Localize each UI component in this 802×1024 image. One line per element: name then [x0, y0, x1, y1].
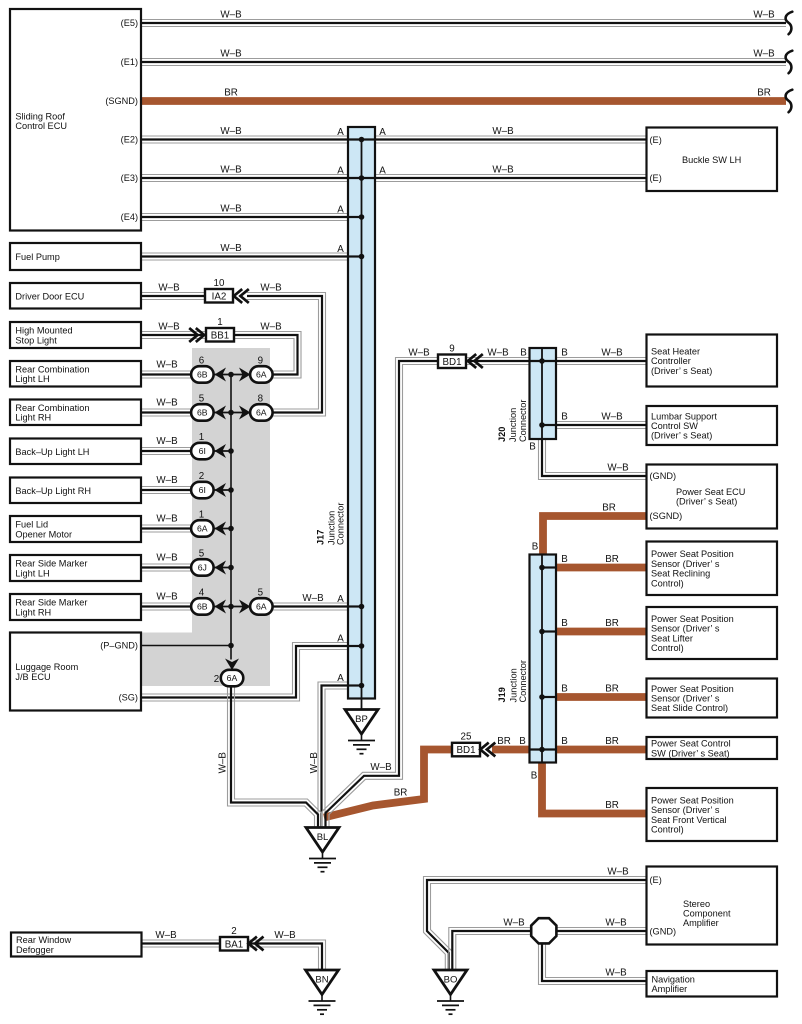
svg-text:BP: BP — [355, 714, 368, 725]
connector 6A pin5 — [250, 598, 273, 615]
svg-text:2: 2 — [214, 674, 219, 685]
svg-text:Control ECU: Control ECU — [15, 121, 67, 131]
svg-text:W–B: W–B — [302, 593, 324, 604]
svg-text:Rear Window: Rear Window — [16, 935, 72, 945]
block High Mounted Stop Light — [10, 322, 141, 348]
svg-text:W–B: W–B — [220, 49, 242, 60]
svg-text:B: B — [561, 618, 568, 629]
svg-text:Amplifier: Amplifier — [652, 984, 688, 994]
connector BD1 pin25 — [452, 732, 480, 757]
block Power Seat Control SW — [647, 737, 778, 759]
wire BR (SGND) to right break — [141, 97, 786, 105]
svg-text:A: A — [337, 204, 344, 215]
connector 6B pin5 — [191, 404, 214, 421]
wire W-B J20 to Lumbar Support Control SW — [556, 422, 646, 429]
chevron at BA1 — [249, 937, 264, 951]
wire W-B High Mounted Stop Light to BB1 — [141, 332, 206, 339]
junction dot J17 y=646 — [359, 643, 365, 649]
ground BL — [306, 828, 339, 872]
junction dot shade bus y=412.5 — [228, 410, 234, 416]
svg-text:6B: 6B — [197, 408, 208, 418]
wire W-B Rear Combination Light RH to 6B — [141, 409, 193, 416]
svg-text:W–B: W–B — [155, 930, 177, 941]
svg-text:BR: BR — [605, 618, 619, 629]
svg-text:W–B: W–B — [492, 126, 514, 137]
svg-text:J17: J17 — [316, 530, 326, 545]
wire W-B BA1 to ground BN — [247, 940, 326, 971]
ground BP — [345, 710, 378, 754]
block Stereo Component Amplifier — [647, 867, 778, 945]
svg-text:W–B: W–B — [260, 283, 282, 294]
connector 6I pin1 — [191, 443, 214, 460]
svg-text:6J: 6J — [198, 563, 207, 573]
wire W-B Back-Up Light RH to 6I — [141, 487, 193, 494]
svg-text:Rear Side Marker: Rear Side Marker — [15, 598, 87, 608]
block Fuel Pump — [10, 243, 141, 270]
connector 6A pin8 — [250, 404, 273, 421]
svg-text:W–B: W–B — [158, 283, 180, 294]
svg-text:Connector: Connector — [335, 503, 345, 545]
junction dot J17 y=178 — [359, 175, 365, 181]
wire BR J19 to Seat Reclining sensor — [555, 564, 647, 572]
svg-text:W–B: W–B — [158, 322, 180, 333]
svg-text:W–B: W–B — [220, 165, 242, 176]
svg-text:A: A — [337, 127, 344, 138]
svg-text:6A: 6A — [256, 602, 267, 612]
svg-text:W–B: W–B — [605, 968, 627, 979]
svg-text:6I: 6I — [199, 446, 206, 456]
chevron at BD1 pin25 — [480, 743, 495, 757]
block Power Seat Position Sensor Reclining — [647, 542, 778, 596]
wire W-B Rear Combination Light LH to 6B — [141, 371, 193, 378]
svg-text:Light LH: Light LH — [15, 374, 49, 384]
svg-text:(E3): (E3) — [121, 173, 138, 183]
block Rear Side Marker Light RH — [10, 594, 141, 620]
svg-text:Sensor (Driver’ s: Sensor (Driver’ s — [651, 624, 720, 634]
svg-text:W–B: W–B — [220, 126, 242, 137]
svg-text:6A: 6A — [227, 673, 238, 683]
wire W-B J17 down to ground BL — [318, 682, 362, 828]
svg-text:B: B — [561, 412, 568, 423]
svg-text:High Mounted: High Mounted — [15, 326, 72, 336]
svg-text:Rear Combination: Rear Combination — [15, 403, 89, 413]
svg-text:W–B: W–B — [607, 867, 629, 878]
svg-text:(E): (E) — [650, 135, 662, 145]
block Power Seat ECU — [647, 465, 778, 529]
svg-text:1: 1 — [199, 510, 204, 521]
svg-text:5: 5 — [199, 549, 205, 560]
wire BR J19 to Power Seat Control SW — [556, 746, 647, 754]
svg-text:Back–Up Light RH: Back–Up Light RH — [15, 486, 91, 496]
svg-text:Power Seat Control: Power Seat Control — [651, 739, 731, 749]
wire W-B noise filter to Navigation Amplifier — [539, 944, 647, 985]
connector 6I pin2 — [191, 482, 214, 499]
J17 internal bus and taps — [347, 140, 376, 699]
wire J17 bus vertical — [361, 140, 363, 710]
svg-text:2: 2 — [231, 926, 236, 937]
wire W-B from IA2 down to 6A pin8 — [247, 293, 326, 417]
svg-text:W–B: W–B — [370, 762, 392, 773]
svg-text:Seat Slide Control): Seat Slide Control) — [651, 703, 728, 713]
svg-text:Controller: Controller — [651, 356, 691, 366]
svg-text:Control): Control) — [651, 578, 684, 588]
connector BA1 pin2 — [220, 926, 248, 951]
wire W-B (E1) to right break — [141, 59, 786, 66]
svg-text:6: 6 — [199, 356, 205, 367]
wire W-B 6A pin5 to J17 — [271, 603, 362, 610]
svg-text:Sensor (Driver’ s: Sensor (Driver’ s — [651, 805, 720, 815]
wire BR Power Seat ECU (SGND) to J19 — [543, 516, 647, 555]
junction dot shade bus y=645.5 — [228, 643, 234, 649]
svg-text:Navigation: Navigation — [652, 975, 695, 985]
connector arrow at 6A pin2 — [225, 659, 239, 671]
block Sliding Roof Control ECU — [10, 9, 141, 231]
svg-text:B: B — [519, 736, 526, 747]
wire shade bus vertical — [230, 375, 232, 660]
svg-text:Power Seat Position: Power Seat Position — [651, 549, 734, 559]
svg-text:B: B — [520, 348, 527, 359]
svg-text:Sensor (Driver’ s: Sensor (Driver’ s — [651, 694, 720, 704]
svg-text:W–B: W–B — [156, 360, 178, 371]
chevron at BD1 pin9 — [468, 354, 483, 368]
svg-text:(E): (E) — [650, 173, 662, 183]
junction dot shade bus y=451 — [228, 448, 234, 454]
svg-text:Defogger: Defogger — [16, 945, 54, 955]
svg-text:BN: BN — [315, 975, 328, 986]
block Fuel Lid Opener Motor — [10, 516, 141, 542]
svg-text:BR: BR — [605, 684, 619, 695]
junction dot J17 y=256.5 — [359, 254, 365, 260]
connector 6J pin5 — [191, 559, 214, 576]
svg-text:B: B — [561, 348, 568, 359]
block Rear Combination Light LH — [10, 361, 141, 387]
svg-text:A: A — [337, 673, 344, 684]
svg-text:(GND): (GND) — [650, 927, 677, 937]
svg-text:Lumbar Support: Lumbar Support — [651, 411, 717, 421]
svg-text:BB1: BB1 — [211, 330, 230, 341]
svg-text:(SGND): (SGND) — [105, 96, 138, 106]
connector arrow at 6A — [239, 406, 251, 420]
svg-text:Sliding Roof: Sliding Roof — [15, 112, 65, 122]
connector arrow at 6B — [215, 368, 227, 382]
junction dot J17 y=685.5 — [359, 683, 365, 689]
svg-text:B: B — [561, 684, 568, 695]
block Rear Side Marker Light LH — [10, 555, 141, 581]
svg-text:BR: BR — [602, 503, 616, 514]
svg-text:BR: BR — [394, 788, 408, 799]
svg-text:Connector: Connector — [518, 660, 528, 702]
svg-text:Junction: Junction — [508, 408, 518, 442]
svg-text:W–B: W–B — [605, 918, 627, 929]
svg-text:Seat Lifter: Seat Lifter — [651, 633, 693, 643]
connector arrow at 6A — [239, 600, 251, 614]
wire W-B noise filter to ground BO — [449, 928, 531, 972]
svg-text:2: 2 — [199, 471, 204, 482]
svg-text:Driver Door ECU: Driver Door ECU — [15, 291, 84, 301]
svg-text:Buckle SW LH: Buckle SW LH — [682, 155, 741, 165]
wire W-B Fuel Pump to J17 — [141, 253, 362, 260]
wire W-B (E5) to right break — [141, 20, 786, 27]
svg-text:Control): Control) — [651, 825, 684, 835]
svg-text:6B: 6B — [197, 370, 208, 380]
svg-text:SW (Driver’ s Seat): SW (Driver’ s Seat) — [651, 748, 730, 758]
junction dot shade bus y=528.5 — [228, 526, 234, 532]
svg-text:W–B: W–B — [156, 436, 178, 447]
svg-text:BR: BR — [605, 736, 619, 747]
junction dot J19 y=749.5 — [539, 747, 545, 753]
block Lumbar Support Control SW — [647, 406, 778, 445]
svg-text:Amplifier: Amplifier — [683, 918, 719, 928]
svg-text:Back–Up Light LH: Back–Up Light LH — [15, 447, 89, 457]
svg-text:Control SW: Control SW — [651, 421, 698, 431]
svg-text:W–B: W–B — [220, 10, 242, 21]
wire W-B (E4) to J17 — [141, 214, 362, 221]
svg-text:BO: BO — [444, 975, 458, 986]
wire (P-GND) to shade bus — [142, 645, 232, 647]
connector 6A pin1 — [191, 520, 214, 537]
block Luggage Room J/B ECU — [10, 633, 141, 711]
wire W-B Rear Side Marker Light RH to 6B — [141, 603, 193, 610]
connector IA2 pin10 — [205, 278, 233, 303]
svg-text:W–B: W–B — [156, 398, 178, 409]
junction dot shade bus y=374.5 — [228, 372, 234, 378]
svg-text:1: 1 — [217, 317, 222, 328]
svg-text:1: 1 — [199, 432, 204, 443]
connector 6A pin2 — [221, 670, 244, 687]
svg-text:B: B — [532, 542, 539, 553]
svg-text:Light RH: Light RH — [15, 607, 51, 617]
svg-text:(SG): (SG) — [119, 693, 138, 703]
svg-text:6B: 6B — [197, 602, 208, 612]
junction dot shade bus y=606.5 — [228, 604, 234, 610]
junction dot J20 y=361 — [539, 358, 545, 364]
svg-text:B: B — [529, 442, 536, 453]
svg-text:BR: BR — [497, 736, 511, 747]
junction connector J17 bar — [348, 127, 375, 699]
svg-text:(Driver’ s Seat): (Driver’ s Seat) — [651, 366, 712, 376]
svg-text:(SGND): (SGND) — [650, 511, 683, 521]
junction dot J17 y=217 — [359, 214, 365, 220]
wire BR J19 to Seat Front Vertical sensor — [542, 762, 647, 814]
svg-text:Rear Side Marker: Rear Side Marker — [15, 559, 87, 569]
svg-text:5: 5 — [199, 394, 205, 405]
svg-text:W–B: W–B — [487, 348, 509, 359]
connector arrow at 6I — [215, 444, 227, 458]
wire W-B Rear Window Defogger to BA1 — [142, 940, 221, 947]
svg-text:8: 8 — [258, 394, 264, 405]
wire W-B J20 to Power Seat ECU (GND) — [539, 439, 647, 480]
svg-text:W–B: W–B — [309, 752, 320, 774]
svg-text:W–B: W–B — [260, 322, 282, 333]
svg-text:A: A — [379, 165, 386, 176]
wire W-B J20 to Seat Heater Controller — [556, 358, 646, 365]
wire W-B Rear Side Marker Light LH to 6J — [141, 564, 193, 571]
svg-text:(Driver’ s Seat): (Driver’ s Seat) — [676, 497, 737, 507]
wire W-B (E2) to Buckle SW LH via J17 — [141, 136, 646, 143]
shade bus taps — [213, 375, 250, 607]
svg-text:Seat Reclining: Seat Reclining — [651, 569, 710, 579]
svg-text:(E5): (E5) — [121, 18, 138, 28]
svg-text:IA2: IA2 — [212, 291, 227, 302]
svg-text:W–B: W–B — [408, 348, 430, 359]
svg-text:Sensor (Driver’ s: Sensor (Driver’ s — [651, 559, 720, 569]
svg-text:BL: BL — [317, 832, 329, 843]
wire W-B Stereo Component Amplifier (E) to ground BO — [424, 877, 647, 972]
connector arrow at 6B — [215, 406, 227, 420]
svg-text:W–B: W–B — [607, 463, 629, 474]
svg-text:(E): (E) — [650, 875, 662, 885]
junction dot J20 y=425 — [539, 422, 545, 428]
svg-text:A: A — [337, 633, 344, 644]
J19 internal bus and taps — [529, 555, 557, 762]
connector arrow at 6I — [215, 483, 227, 497]
junction dot J19 y=567.5 — [539, 565, 545, 571]
svg-text:Fuel Lid: Fuel Lid — [15, 520, 48, 530]
svg-text:Power Seat Position: Power Seat Position — [651, 614, 734, 624]
svg-text:W–B: W–B — [156, 475, 178, 486]
svg-text:W–B: W–B — [218, 752, 229, 774]
svg-text:W–B: W–B — [601, 412, 623, 423]
wire W-B Back-Up Light LH to 6I — [141, 448, 193, 455]
block Back-Up Light LH — [10, 439, 141, 465]
svg-text:W–B: W–B — [156, 553, 178, 564]
junction dot J19 y=631.5 — [539, 629, 545, 635]
svg-text:Control): Control) — [651, 643, 684, 653]
wire BR BD1 pin25 down to ground BL — [324, 750, 452, 818]
junction dot J17 y=606.5 — [359, 604, 365, 610]
svg-text:4: 4 — [199, 588, 205, 599]
svg-text:6A: 6A — [197, 524, 208, 534]
wire BR J19 to Seat Lifter sensor — [555, 628, 647, 636]
svg-text:(P–GND): (P–GND) — [100, 641, 138, 651]
svg-text:Connector: Connector — [518, 400, 528, 442]
svg-text:BR: BR — [605, 800, 619, 811]
svg-text:10: 10 — [214, 278, 225, 289]
wire W-B (E3) to Buckle SW LH via J17 — [141, 175, 646, 182]
break symbol E1 — [786, 51, 793, 73]
svg-text:(E1): (E1) — [121, 57, 138, 67]
svg-text:BD1: BD1 — [442, 357, 461, 368]
connector BD1 pin9 — [438, 343, 466, 368]
svg-text:B: B — [561, 736, 568, 747]
svg-text:J/B ECU: J/B ECU — [15, 672, 50, 682]
ground BO — [434, 970, 467, 1014]
svg-text:(Driver’ s Seat): (Driver’ s Seat) — [651, 431, 712, 441]
svg-text:Light RH: Light RH — [15, 413, 51, 423]
svg-text:Luggage Room: Luggage Room — [15, 662, 78, 672]
wire W-B Fuel Lid Opener Motor to 6A — [141, 525, 193, 532]
break symbol E5 — [786, 12, 793, 35]
svg-text:6I: 6I — [199, 485, 206, 495]
connector arrow at 6A — [215, 522, 227, 536]
svg-text:Stop Light: Stop Light — [15, 335, 57, 345]
wire W-B BD1 pin9 down to ground BL — [322, 358, 438, 829]
svg-text:B: B — [561, 554, 568, 565]
J20 internal bus and taps — [529, 349, 557, 438]
shaded harness region — [142, 348, 271, 686]
svg-text:A: A — [337, 594, 344, 605]
junction dot shade bus y=567.5 — [228, 565, 234, 571]
svg-text:Power Seat Position: Power Seat Position — [651, 796, 734, 806]
block Power Seat Position Sensor Lifter — [647, 607, 778, 659]
svg-text:BA1: BA1 — [225, 939, 244, 950]
connector 6B pin4 — [191, 598, 214, 615]
svg-text:5: 5 — [258, 588, 264, 599]
svg-text:25: 25 — [461, 732, 472, 743]
svg-text:J19: J19 — [497, 687, 507, 702]
svg-text:9: 9 — [258, 356, 263, 367]
svg-text:W–B: W–B — [220, 243, 242, 254]
block Power Seat Position Sensor Front Vertical — [647, 788, 778, 841]
svg-text:9: 9 — [449, 343, 454, 354]
svg-text:W–B: W–B — [156, 514, 178, 525]
wire W-B from 6A pin2 to ground BL — [228, 686, 322, 828]
svg-text:W–B: W–B — [220, 204, 242, 215]
svg-text:Light LH: Light LH — [15, 568, 49, 578]
junction connector J19 bar — [530, 555, 557, 763]
connector arrow at 6J — [215, 561, 227, 575]
svg-text:A: A — [337, 244, 344, 255]
block Power Seat Position Sensor Slide — [647, 679, 778, 718]
connector arrow at 6B — [215, 600, 227, 614]
svg-text:J20: J20 — [497, 427, 507, 442]
block Rear Combination Light RH — [10, 400, 141, 426]
svg-text:BD1: BD1 — [456, 745, 475, 756]
ground BN — [306, 970, 339, 1014]
noise filter octagon — [531, 918, 556, 943]
wire BR J19 to BD1 pin25 — [492, 746, 530, 754]
chevron at BB1 — [189, 328, 204, 342]
svg-text:W–B: W–B — [492, 165, 514, 176]
wire W-B noise filter to Stereo Component Amplifier (GND) — [556, 928, 646, 935]
svg-text:A: A — [379, 127, 386, 138]
junction connector J20 bar — [530, 348, 557, 439]
break symbol SGND — [786, 90, 793, 113]
svg-text:Seat Heater: Seat Heater — [651, 346, 700, 356]
svg-text:Power Seat ECU: Power Seat ECU — [676, 487, 745, 497]
svg-text:Seat Front Vertical: Seat Front Vertical — [651, 815, 727, 825]
svg-text:W–B: W–B — [601, 348, 623, 359]
connector 6A pin9 — [250, 366, 273, 383]
block Seat Heater Controller — [647, 335, 778, 387]
connector 6B pin6 — [191, 366, 214, 383]
connector BB1 pin1 — [206, 317, 234, 342]
svg-text:(E2): (E2) — [121, 135, 138, 145]
wire W-B BD1 pin9 to J20 — [466, 358, 530, 365]
block Buckle SW LH — [647, 128, 778, 192]
block Driver Door ECU — [10, 283, 141, 309]
wire BR J19 to Seat Slide sensor — [555, 693, 647, 701]
svg-text:BR: BR — [224, 88, 238, 99]
svg-text:W–B: W–B — [274, 930, 296, 941]
wire W-B from BB1 down to 6A pin9 — [233, 332, 301, 379]
svg-text:Junction: Junction — [509, 668, 519, 702]
svg-text:Opener Motor: Opener Motor — [15, 529, 72, 539]
svg-text:W–B: W–B — [753, 49, 775, 60]
svg-text:A: A — [337, 165, 344, 176]
svg-text:Component: Component — [683, 909, 731, 919]
svg-text:Rear Combination: Rear Combination — [15, 364, 89, 374]
svg-text:B: B — [531, 771, 538, 782]
junction dot shade bus y=490 — [228, 487, 234, 493]
block Rear Window Defogger — [11, 933, 142, 957]
svg-text:(GND): (GND) — [650, 471, 677, 481]
connector arrow at 6A — [239, 368, 251, 382]
junction dot J19 y=697 — [539, 694, 545, 700]
svg-text:6A: 6A — [256, 408, 267, 418]
wire W-B Driver Door ECU to IA2 — [141, 293, 206, 300]
block Navigation Amplifier — [647, 971, 778, 997]
